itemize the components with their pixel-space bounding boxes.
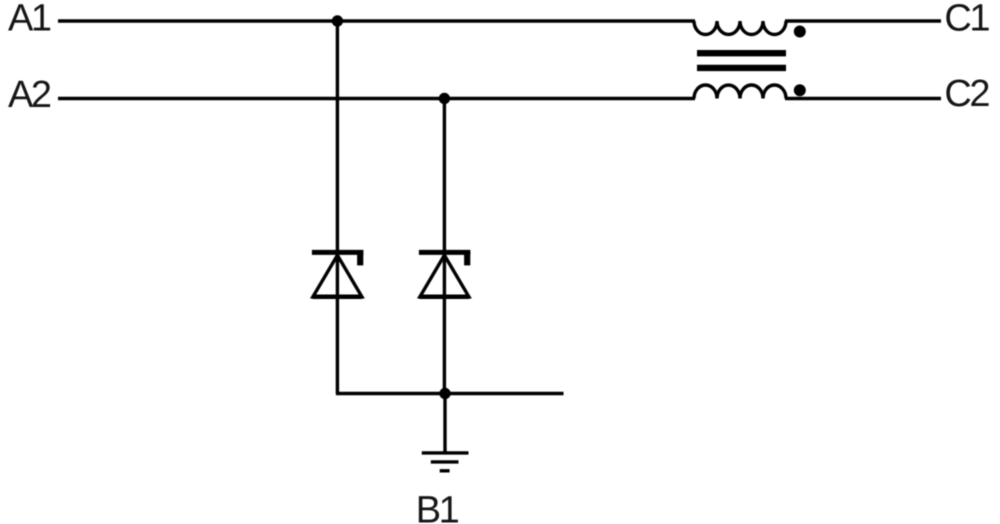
phase dot bottom winding <box>794 84 806 96</box>
svg-text:A2: A2 <box>8 74 51 116</box>
diode D2 cathode bend <box>464 252 470 265</box>
diode D1 triangle <box>313 255 362 297</box>
svg-text:B1: B1 <box>416 489 459 524</box>
svg-text:C1: C1 <box>944 0 989 39</box>
diode D2 cathode bar <box>419 250 471 255</box>
wire C2 right segment <box>785 97 941 100</box>
wire C1 right segment <box>785 19 941 22</box>
wire vertical from A1 junction to bottom bus <box>336 21 339 394</box>
wire A2 left segment <box>58 97 695 100</box>
diode D1 base line <box>312 295 362 300</box>
inductor L1 secondary winding (bottom) <box>694 85 786 99</box>
diode D2 triangle <box>420 255 469 297</box>
junction dot on A1 <box>332 15 343 26</box>
diode D1 cathode bar <box>312 250 364 255</box>
diode D1 cathode bend <box>357 252 363 265</box>
wire ground stub <box>443 394 446 453</box>
transformer core bar lower <box>697 65 786 71</box>
ground symbol bar 2 <box>431 460 459 463</box>
junction dot on A2 <box>439 93 450 104</box>
wire vertical from A2 junction to bottom bus <box>443 99 446 394</box>
phase dot top winding <box>794 26 806 38</box>
ground symbol bar 1 <box>422 451 469 454</box>
svg-text:C2: C2 <box>944 73 989 115</box>
svg-text:A1: A1 <box>8 0 51 40</box>
wire A1 left segment <box>58 19 695 22</box>
inductor L1 primary winding (top) <box>694 21 786 35</box>
junction dot on bottom bus <box>439 388 450 399</box>
wire bottom bus <box>336 392 564 395</box>
diode D2 base line <box>419 295 469 300</box>
ground symbol bar 3 <box>440 469 450 472</box>
transformer core bar upper <box>697 50 786 56</box>
